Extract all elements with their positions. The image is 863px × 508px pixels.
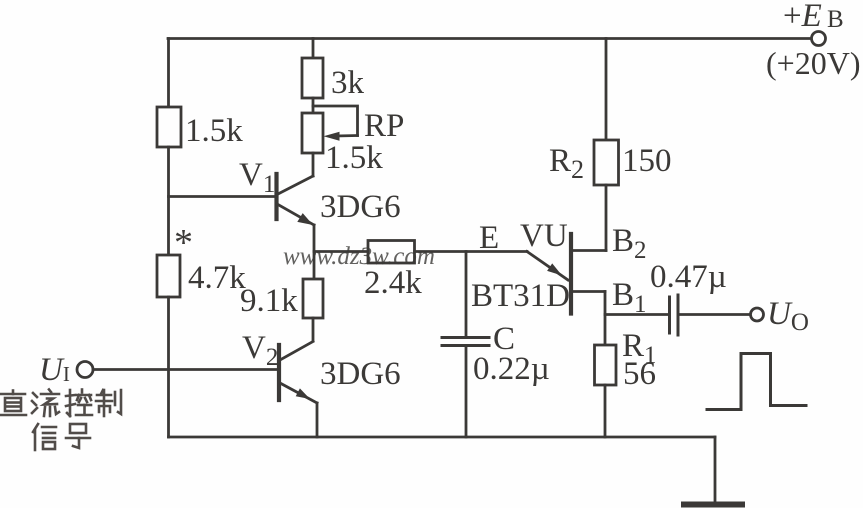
svg-text:4.7k: 4.7k (188, 260, 246, 296)
resistor R2 (594, 140, 619, 185)
ground bar (684, 502, 742, 508)
wire ground drop (714, 437, 717, 502)
resistor 9.1k (303, 279, 323, 318)
potentiometer RP wiper arrow (336, 134, 358, 137)
svg-text:(+20V): (+20V) (766, 45, 860, 81)
svg-text:9.1k: 9.1k (240, 283, 298, 319)
transistor V2 emitter (280, 383, 317, 403)
svg-text:RP: RP (364, 108, 404, 144)
resistor R1 (595, 345, 617, 385)
wire V2 emitter down (316, 403, 319, 437)
capacitor C plates (442, 336, 489, 339)
wire E node right (415, 250, 528, 253)
svg-text:150: 150 (622, 143, 672, 179)
wire bottom rail (169, 436, 716, 439)
label DC control signal line1 (zhi liu kong zhi) (0, 390, 121, 417)
wire left rail lower (167, 297, 170, 437)
wire R1 to bottom rail (604, 385, 607, 437)
wire output right (680, 313, 751, 316)
zhi2 (101, 390, 103, 394)
svg-text:www.dz3w.com: www.dz3w.com (283, 243, 435, 270)
svg-text:3DG6: 3DG6 (320, 356, 401, 392)
svg-text:0.47µ: 0.47µ (650, 259, 727, 295)
wire C branch bottom (465, 346, 468, 437)
wire left rail upper (167, 39, 170, 108)
hao (70, 424, 86, 433)
svg-text:+E: +E (783, 0, 822, 34)
svg-text:3DG6: 3DG6 (320, 189, 401, 225)
xin (33, 424, 38, 432)
waveform pulse (707, 354, 806, 410)
resistor 4.7k (157, 255, 180, 297)
transistor V1 base bar (274, 174, 278, 219)
wire R2 to B2 (605, 185, 608, 251)
wire left rail middle (167, 147, 170, 255)
wire R2 branch top (605, 39, 608, 141)
svg-text:2.4k: 2.4k (364, 265, 422, 301)
svg-text:VU: VU (520, 218, 568, 254)
wire RP to V1 collector (312, 153, 315, 176)
wire 3k branch top (312, 39, 315, 59)
wire V1 base (169, 195, 275, 198)
svg-text:1.5k: 1.5k (185, 113, 243, 149)
svg-text:E: E (479, 220, 499, 256)
wire output left (605, 313, 668, 316)
svg-text:B: B (827, 6, 844, 33)
transistor V2 base bar (277, 345, 281, 400)
resistor 1.5k (157, 107, 181, 147)
resistor 2.4k (368, 241, 415, 264)
liu (33, 393, 37, 397)
wire B1 down to R1 (604, 292, 607, 346)
terminal +EB (812, 32, 826, 46)
wire V1 emitter down (313, 225, 316, 279)
UJT VU base bar (569, 234, 573, 314)
svg-text:56: 56 (623, 356, 656, 392)
potentiometer RP body (302, 113, 323, 153)
kong (69, 390, 72, 416)
wire 3k to RP (312, 98, 315, 113)
potentiometer RP wiper loop (313, 106, 358, 136)
svg-text:BT31D: BT31D (471, 278, 570, 314)
label DC control signal line2 (xin hao) (33, 424, 90, 450)
terminal UO (751, 308, 764, 321)
capacitor 0.47u plates (668, 297, 671, 333)
svg-text:1.5k: 1.5k (325, 140, 383, 176)
transistor V2 collector (280, 342, 313, 361)
wire E node left (314, 250, 368, 253)
UJT emitter with arrow (527, 252, 568, 281)
svg-text:3k: 3k (331, 65, 365, 101)
wire 9.1k to V2 collector (312, 318, 315, 341)
svg-text:0.22µ: 0.22µ (473, 351, 550, 387)
wire top power rail (168, 37, 812, 40)
UJT B1 lead (572, 290, 605, 293)
terminal UI (77, 362, 93, 378)
wire C branch top (465, 252, 468, 337)
wire UI to V2 base (93, 368, 277, 371)
transistor V1 emitter (277, 204, 314, 225)
transistor V1 collector (277, 176, 313, 195)
UJT B2 lead (572, 249, 606, 252)
zhi (12, 391, 15, 395)
resistor 3k (302, 58, 323, 98)
